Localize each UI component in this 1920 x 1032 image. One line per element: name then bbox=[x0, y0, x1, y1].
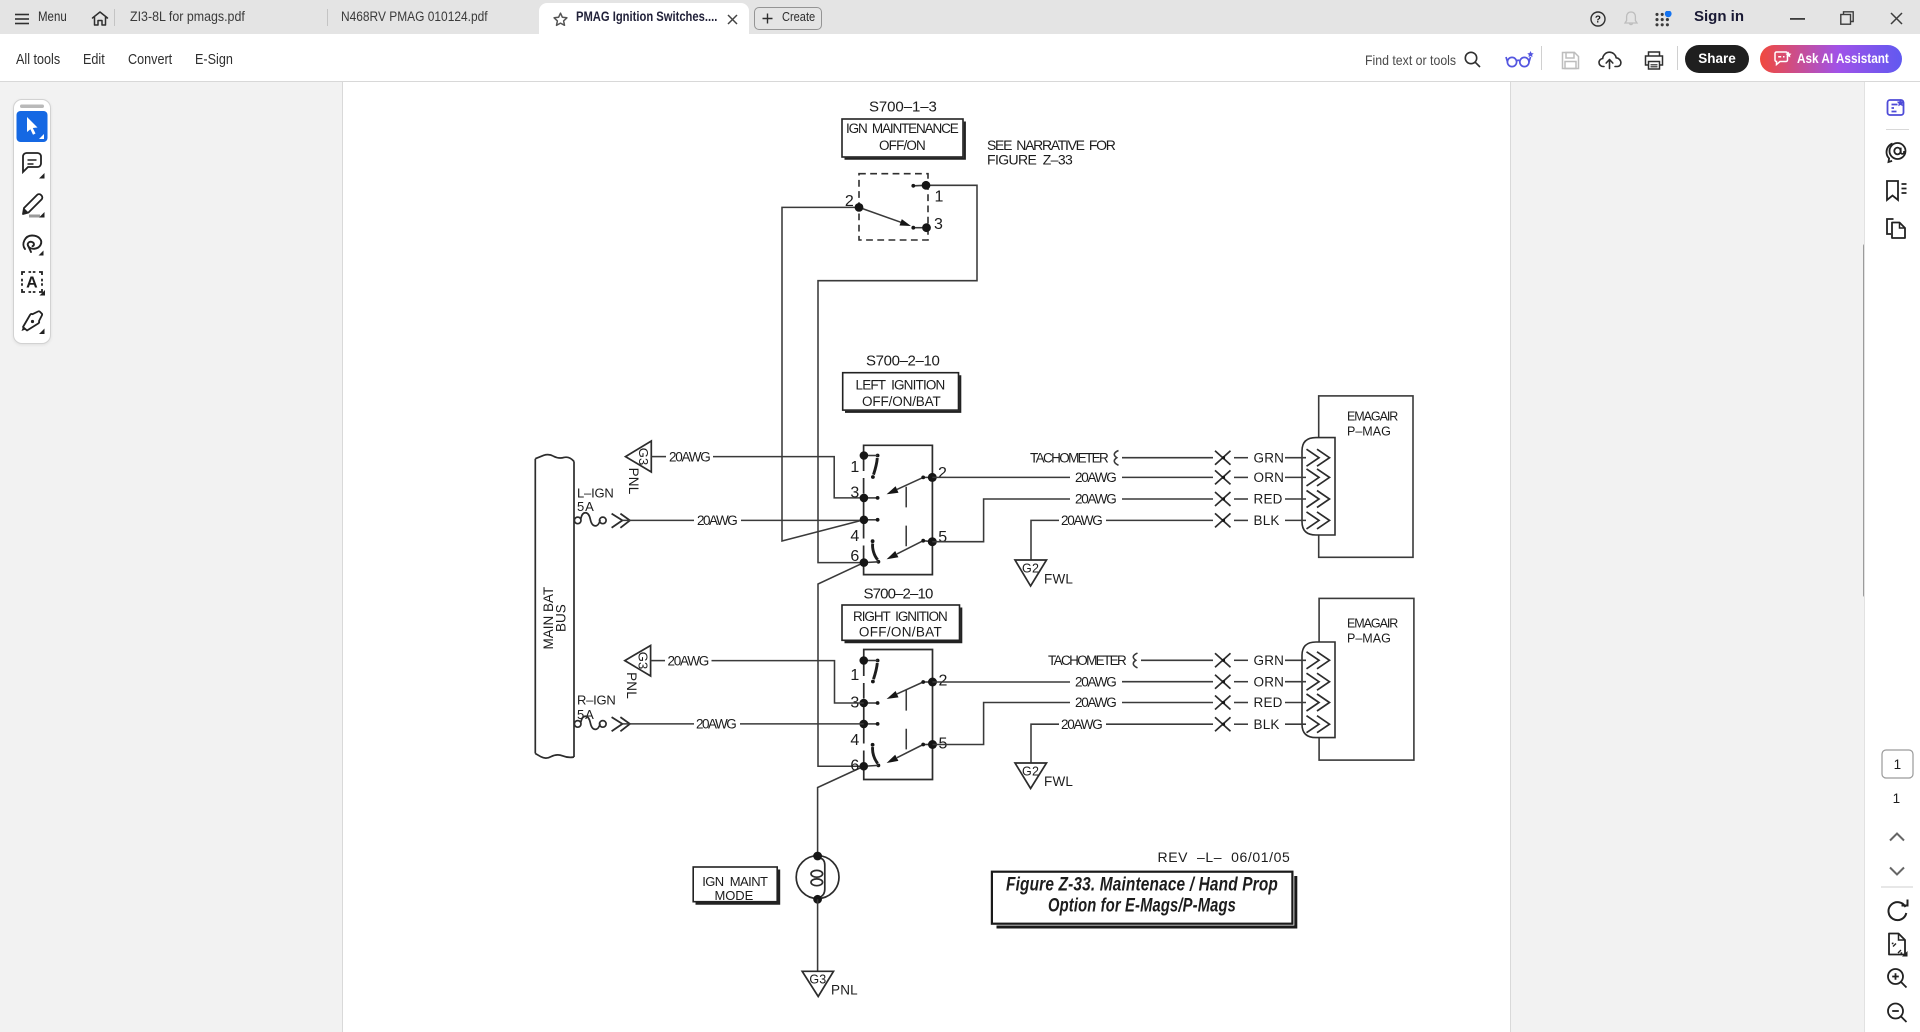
left switch mechanical link (dashed) bbox=[905, 487, 907, 549]
svg-text:G3: G3 bbox=[636, 652, 651, 670]
wire fuse to right switch pin 4, 20AWG bbox=[622, 717, 863, 732]
left switch pin 5 bbox=[921, 529, 947, 546]
svg-text:20AWG: 20AWG bbox=[1075, 470, 1117, 485]
right switch arm 2 to 3 bbox=[887, 682, 924, 699]
svg-text:4: 4 bbox=[850, 528, 859, 545]
svg-text:20AWG: 20AWG bbox=[696, 717, 737, 732]
switch S1 body (dashed) bbox=[859, 174, 928, 240]
right ignition switch body bbox=[864, 650, 933, 780]
svg-text:1: 1 bbox=[850, 459, 859, 476]
svg-text:3: 3 bbox=[934, 216, 943, 233]
wire BLK 20AWG to G2 (left) bbox=[1031, 513, 1306, 560]
comment @ icon bbox=[1886, 143, 1905, 162]
scrollbar thumb bbox=[1863, 244, 1867, 597]
page number box bbox=[1882, 750, 1913, 778]
text select [A] bbox=[22, 272, 45, 296]
bookmark icon bbox=[1887, 181, 1907, 200]
P-MAG connector (right) bbox=[1302, 642, 1335, 738]
right switch pin 3 bbox=[850, 695, 879, 712]
left switch pin 3 bbox=[850, 485, 879, 503]
left switch pin 1 bbox=[850, 451, 877, 476]
right switch pin 1 bbox=[850, 656, 877, 684]
svg-text:1: 1 bbox=[935, 189, 944, 206]
switch S700-2-10 right designator bbox=[864, 586, 934, 603]
svg-text:20AWG: 20AWG bbox=[1061, 717, 1103, 732]
svg-text:ORN: ORN bbox=[1254, 674, 1285, 689]
svg-text:G3: G3 bbox=[809, 973, 826, 987]
zoom in bbox=[1888, 969, 1907, 988]
wire S1 pin1 to left switch pin6 bbox=[818, 185, 977, 562]
ground G3 PNL (bottom) bbox=[802, 971, 858, 997]
left switch BAT arc (pin1) bbox=[871, 454, 879, 479]
save disk (disabled) bbox=[1561, 51, 1580, 70]
wire tachometer GRN (right) bbox=[1048, 653, 1306, 668]
right switch BAT arc (pin1) bbox=[871, 659, 879, 684]
svg-text:5: 5 bbox=[938, 529, 947, 546]
wire G3 to right switch pin 3, 20AWG bbox=[651, 653, 864, 703]
wire pin2 ORN 20AWG (left) bbox=[932, 470, 1306, 485]
svg-text:GRN: GRN bbox=[1254, 653, 1285, 668]
svg-text:5A: 5A bbox=[577, 499, 594, 514]
svg-text:20AWG: 20AWG bbox=[1075, 492, 1117, 507]
svg-text:GRN: GRN bbox=[1254, 450, 1285, 465]
EMAGAIR P-MAG box (left) bbox=[1319, 396, 1413, 557]
left switch arm 2 to 3 bbox=[887, 477, 924, 494]
splice X RED (right) bbox=[1215, 696, 1231, 710]
note REV -L- 06/01/05 bbox=[1158, 849, 1291, 865]
switch S1 pin 1 bbox=[911, 181, 943, 206]
svg-text:S700–2–10: S700–2–10 bbox=[864, 586, 934, 603]
right icons bbox=[1590, 11, 1606, 27]
left ignition switch body bbox=[864, 445, 933, 574]
svg-text:RED: RED bbox=[1254, 695, 1283, 710]
wire tachometer GRN (left) bbox=[1030, 450, 1306, 465]
splice X ORN (left) bbox=[1215, 470, 1231, 484]
svg-text:LEFT IGNITION: LEFT IGNITION bbox=[856, 378, 946, 393]
label box LEFT IGNITION OFF/ON/BAT bbox=[843, 373, 961, 412]
wire left pin6 to right pin6 bbox=[818, 563, 864, 767]
svg-text:20AWG: 20AWG bbox=[697, 513, 738, 528]
right switch mechanical link (dashed) bbox=[905, 690, 907, 752]
svg-text:MODE: MODE bbox=[715, 888, 754, 903]
switch S700-2-10 left designator bbox=[866, 352, 940, 369]
pencil bbox=[23, 194, 45, 217]
comment bbox=[23, 153, 45, 179]
right switch arm 5 to 6 bbox=[887, 745, 924, 764]
splice X BLK (right) bbox=[1215, 717, 1231, 731]
splice X RED (left) bbox=[1215, 492, 1231, 506]
svg-text:BLK: BLK bbox=[1254, 513, 1280, 528]
wire lamp to ground G3 bbox=[817, 899, 819, 971]
P-MAG connector (left) bbox=[1302, 438, 1335, 535]
switch S1 pin 3 bbox=[911, 216, 943, 233]
svg-text:S700–1–3: S700–1–3 bbox=[869, 99, 937, 116]
svg-text:BLK: BLK bbox=[1254, 717, 1280, 732]
wire chevron out of fuse bbox=[612, 514, 630, 528]
wire BLK 20AWG to G2 (right) bbox=[1031, 717, 1306, 763]
wire S1 pin2 to left switch pin4 bbox=[782, 207, 864, 541]
active tab bbox=[539, 3, 749, 34]
svg-text:4: 4 bbox=[850, 732, 859, 749]
svg-text:OFF/ON: OFF/ON bbox=[879, 138, 926, 153]
ground G2 FWL (right) bbox=[1015, 763, 1073, 789]
left switch arm 5 to 6 bbox=[887, 541, 924, 560]
wire fuse to left switch pin 4, 20AWG bbox=[622, 513, 864, 528]
splice X ORN (right) bbox=[1215, 675, 1231, 689]
ground G2 FWL (left) bbox=[1015, 560, 1073, 587]
wire pin2 ORN 20AWG (right) bbox=[933, 674, 1307, 689]
svg-text:1: 1 bbox=[1893, 791, 1901, 806]
svg-text:Figure Z-33. Maintenace / Hand: Figure Z-33. Maintenace / Hand Prop bbox=[1006, 875, 1278, 896]
svg-text:PNL: PNL bbox=[626, 468, 641, 495]
share pill bbox=[1685, 45, 1749, 73]
svg-text:FIGURE Z–33: FIGURE Z–33 bbox=[987, 152, 1073, 168]
left switch BAT arc (pin6) bbox=[871, 539, 881, 563]
label MAIN BAT BUS (rotated) bbox=[541, 587, 569, 650]
right switch pin 4 bbox=[850, 720, 879, 749]
wire right pin6 to lamp bbox=[818, 766, 864, 856]
ask AI pill bbox=[1760, 45, 1902, 73]
note SEE NARRATIVE FOR FIGURE Z-33 bbox=[987, 137, 1116, 168]
label box IGN MAINT MODE bbox=[693, 867, 779, 904]
svg-text:REV –L– 06/01/05: REV –L– 06/01/05 bbox=[1158, 849, 1291, 865]
wire pin5 RED 20AWG (left) bbox=[932, 492, 1306, 542]
right switch pin 6 bbox=[850, 758, 878, 775]
EMAGAIR P-MAG box (right) bbox=[1319, 598, 1414, 760]
switch S700-1-3 designator bbox=[869, 99, 937, 116]
right switch BAT arc (pin6) bbox=[871, 743, 881, 767]
svg-text:A: A bbox=[26, 274, 38, 291]
svg-text:20AWG: 20AWG bbox=[668, 653, 710, 668]
svg-text:20AWG: 20AWG bbox=[1075, 695, 1117, 710]
AI assistant icon (blue) bbox=[1888, 99, 1905, 115]
switch S1 pin 2 bbox=[845, 193, 864, 212]
ground G3 PNL (right panel) bbox=[624, 646, 651, 700]
fuse R-IGN 5A bbox=[574, 693, 616, 730]
svg-text:BUS: BUS bbox=[554, 604, 569, 632]
svg-text:P–MAG: P–MAG bbox=[1347, 632, 1391, 646]
cloud upload bbox=[1598, 50, 1622, 70]
svg-text:G2: G2 bbox=[1022, 562, 1039, 576]
svg-text:PNL: PNL bbox=[624, 672, 639, 699]
create button bbox=[754, 7, 822, 30]
right switch pin 2 bbox=[921, 673, 947, 690]
pages/copy icon bbox=[1887, 219, 1905, 238]
svg-text:IGN MAINT: IGN MAINT bbox=[702, 874, 768, 889]
svg-text:5A: 5A bbox=[577, 707, 594, 722]
svg-text:P–MAG: P–MAG bbox=[1347, 425, 1391, 439]
left floating tool panel bbox=[13, 99, 51, 344]
svg-text:RIGHT IGNITION: RIGHT IGNITION bbox=[853, 609, 948, 624]
lasso/loop bbox=[23, 236, 43, 256]
svg-text:G3: G3 bbox=[636, 448, 651, 466]
figure title box bbox=[992, 872, 1296, 927]
svg-text:6: 6 bbox=[850, 548, 859, 565]
label box IGN MAINTENANCE OFF/ON bbox=[842, 119, 965, 159]
svg-text:?: ? bbox=[1595, 15, 1601, 26]
svg-text:Option for E-Mags/P-Mags: Option for E-Mags/P-Mags bbox=[1048, 896, 1236, 917]
svg-text:EMAGAIR: EMAGAIR bbox=[1347, 616, 1399, 630]
splice X GRN (left) bbox=[1215, 451, 1231, 465]
svg-text:PNL: PNL bbox=[831, 983, 858, 998]
ground G3 PNL (left panel) bbox=[626, 441, 652, 495]
main battery bus bar bbox=[535, 455, 574, 758]
svg-text:20AWG: 20AWG bbox=[1075, 674, 1117, 689]
zoom out bbox=[1888, 1004, 1907, 1023]
label box RIGHT IGNITION OFF/ON/BAT bbox=[842, 605, 961, 642]
svg-text:6: 6 bbox=[850, 758, 859, 775]
right switch pin 5 bbox=[921, 736, 947, 753]
svg-text:TACHOMETER: TACHOMETER bbox=[1048, 653, 1127, 668]
indicator lamp bbox=[796, 852, 839, 904]
left switch pin 2 bbox=[921, 465, 947, 482]
left switch pin 4 bbox=[850, 516, 879, 546]
svg-text:20AWG: 20AWG bbox=[669, 449, 711, 464]
switch S1 arm (2 to 3) bbox=[859, 207, 911, 226]
svg-text:OFF/ON/BAT: OFF/ON/BAT bbox=[859, 625, 942, 640]
splice X GRN (right) bbox=[1215, 653, 1231, 667]
svg-text:2: 2 bbox=[938, 465, 947, 482]
svg-text:2: 2 bbox=[845, 193, 854, 210]
svg-text:FWL: FWL bbox=[1044, 572, 1073, 587]
svg-text:EMAGAIR: EMAGAIR bbox=[1347, 409, 1399, 423]
svg-text:R–IGN: R–IGN bbox=[577, 693, 616, 708]
wire G3 to left switch pin 3, 20AWG bbox=[651, 449, 864, 498]
svg-text:20AWG: 20AWG bbox=[1061, 513, 1103, 528]
svg-text:OFF/ON/BAT: OFF/ON/BAT bbox=[862, 394, 941, 409]
svg-text:3: 3 bbox=[850, 485, 859, 502]
printer bbox=[1644, 51, 1664, 70]
wire chevron out of fuse (right) bbox=[612, 717, 630, 731]
svg-text:S700–2–10: S700–2–10 bbox=[866, 352, 940, 369]
svg-text:FWL: FWL bbox=[1044, 774, 1073, 789]
select tool (active) bbox=[17, 111, 48, 142]
svg-text:2: 2 bbox=[939, 673, 948, 690]
svg-text:TACHOMETER: TACHOMETER bbox=[1030, 450, 1109, 465]
splice X BLK (left) bbox=[1215, 513, 1231, 527]
wire pin5 RED 20AWG (right) bbox=[933, 695, 1307, 744]
purple glasses bbox=[1505, 50, 1535, 70]
fountain pen bbox=[22, 311, 45, 334]
svg-text:1: 1 bbox=[1894, 757, 1902, 772]
svg-text:IGN MAINTENANCE: IGN MAINTENANCE bbox=[846, 121, 959, 136]
refresh bbox=[1888, 900, 1907, 921]
fuse L-IGN 5A bbox=[574, 486, 614, 526]
svg-text:ORN: ORN bbox=[1254, 470, 1285, 485]
left switch pin 6 bbox=[850, 548, 878, 567]
svg-text:RED: RED bbox=[1254, 492, 1283, 507]
svg-text:1: 1 bbox=[850, 667, 859, 684]
page fit icon bbox=[1889, 934, 1908, 957]
svg-text:G2: G2 bbox=[1022, 765, 1039, 779]
